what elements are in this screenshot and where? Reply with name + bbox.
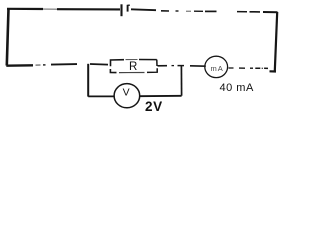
svg-text:2V: 2V (145, 99, 163, 114)
svg-text:R: R (129, 61, 137, 73)
svg-text:40 mA: 40 mA (220, 82, 254, 94)
svg-text:mA: mA (211, 64, 224, 73)
svg-text:V: V (123, 86, 130, 98)
